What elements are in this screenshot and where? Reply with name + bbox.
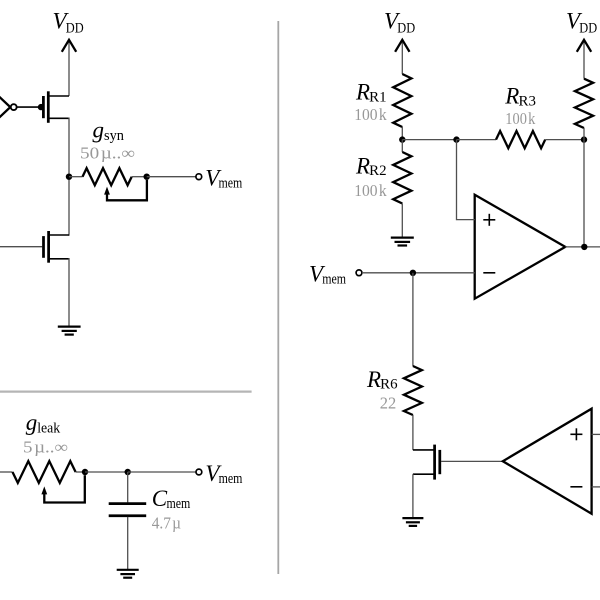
svg-text:100 k: 100 k [354, 181, 387, 200]
resistor R_R2 [393, 140, 411, 238]
wire node E to node F [402, 139, 456, 141]
potentiometer g_leak [0, 461, 85, 483]
svg-text:mem: mem [167, 496, 191, 512]
terminal V_mem (left top) [196, 174, 202, 180]
transistor M1 (PMOS) [43, 91, 69, 123]
svg-text:mem: mem [322, 272, 346, 288]
svg-text:syn: syn [104, 128, 125, 144]
label V_mem (left top) [205, 166, 243, 192]
power VDD arrow (right 2) [577, 40, 591, 79]
wire node H down to R_R6 [412, 273, 414, 366]
label VDD (right 1) [384, 9, 415, 37]
wire U3 + input stub [592, 433, 600, 435]
wire node C to node D [85, 471, 128, 473]
wire R6 to M3 drain [412, 415, 414, 450]
svg-text:R6: R6 [380, 377, 397, 393]
transistor M2 (NMOS) [44, 231, 70, 263]
label R_R3 [504, 84, 536, 110]
ground (M3) [402, 518, 423, 526]
terminal V_mem (right) [356, 270, 362, 276]
svg-text:leak: leak [37, 420, 61, 436]
node output junction [581, 244, 587, 250]
svg-text:R: R [366, 367, 381, 392]
label R_R6 [366, 367, 398, 393]
svg-text:DD: DD [579, 20, 597, 36]
svg-text:C: C [152, 486, 168, 511]
wire R3 to right rail [545, 139, 584, 141]
svg-text:g: g [93, 118, 105, 143]
svg-text:DD: DD [397, 20, 415, 36]
svg-text:mem: mem [219, 471, 243, 487]
svg-text:R3: R3 [519, 93, 536, 109]
wiper of g_leak [41, 475, 84, 502]
node D (capacitor top) [125, 469, 131, 475]
label g_leak [26, 410, 61, 436]
divider horizontal (left panel split) [0, 390, 252, 392]
wire R1 to node E [401, 127, 403, 140]
svg-text:R: R [355, 80, 370, 105]
label V_mem (left bottom) [205, 461, 243, 487]
power VDD arrow (left) [62, 40, 76, 96]
ground (left NMOS) [58, 327, 81, 335]
label g_syn [93, 118, 125, 144]
node A (left rail / g_syn) [66, 174, 72, 180]
svg-text:R: R [504, 84, 519, 109]
capacitor C_mem [109, 472, 147, 570]
label V_mem (right) [309, 262, 347, 288]
node C (g_leak right) [82, 469, 88, 475]
resistor R_R3 [496, 131, 545, 148]
label C_mem [152, 486, 191, 512]
potentiometer g_syn [69, 168, 147, 185]
wire M2 source to ground [68, 258, 70, 327]
node G (rail/R3 junction) [581, 136, 587, 142]
power VDD arrow (right 1) [395, 40, 409, 74]
svg-text:50 µ..∞: 50 µ..∞ [80, 143, 135, 162]
svg-text:22: 22 [380, 394, 397, 413]
wire U3 - input stub [592, 486, 600, 488]
wire rail down to output [583, 128, 585, 247]
resistor R_R4 (right rail) [575, 79, 593, 128]
node E (R1/R2 junction) [399, 136, 405, 142]
ground (capacitor) [117, 570, 139, 578]
divider vertical (panel split) [277, 21, 279, 574]
ground (R2) [391, 238, 414, 246]
wire bubble to PMOS gate [17, 106, 39, 108]
svg-text:R2: R2 [369, 163, 386, 179]
svg-text:100 k: 100 k [354, 105, 387, 124]
op-amp U2 [475, 195, 566, 299]
wire M1 source down to M2 drain [68, 118, 70, 236]
transistor M3 (NMOS mirrored) [413, 445, 440, 480]
wire node B to terminal [147, 176, 196, 178]
label VDD (right 2) [566, 9, 597, 37]
inverter U1 (output tip) [0, 92, 10, 123]
label R_R1 [355, 80, 387, 106]
wire opamp + input up to node F [457, 140, 475, 220]
label VDD (left) [53, 9, 84, 37]
wiper of g_syn [104, 180, 147, 200]
wire node D to terminal [128, 471, 196, 473]
terminal V_mem (left bottom) [196, 469, 202, 475]
svg-text:DD: DD [66, 20, 84, 36]
resistor R_R1 [393, 74, 411, 127]
node B (g_syn right) [144, 174, 150, 180]
wire node F to R_R3 [457, 139, 497, 141]
svg-text:5 µ..∞: 5 µ..∞ [23, 437, 68, 456]
node H (V_mem branch) [410, 270, 416, 276]
wire M2 gate from edge [0, 246, 42, 248]
wire opamp output [565, 246, 600, 248]
wire terminal to opamp - input [362, 272, 475, 274]
inverter U1 output bubble [11, 104, 17, 110]
svg-text:mem: mem [219, 176, 243, 192]
wire M3 source to ground [412, 474, 414, 518]
svg-text:R: R [355, 153, 370, 178]
node gate dot M1 [38, 104, 44, 110]
op-amp U3 (left pointing) [503, 409, 592, 514]
resistor R_R6 [404, 366, 422, 415]
label R_R2 [355, 153, 387, 179]
svg-text:100 k: 100 k [505, 109, 536, 128]
svg-text:4.7 µ: 4.7 µ [152, 514, 181, 533]
svg-text:R1: R1 [369, 89, 386, 105]
wire M3 gate to op-amp U3 [441, 460, 503, 462]
svg-text:g: g [26, 410, 38, 435]
node F (opamp + branch) [453, 136, 459, 142]
